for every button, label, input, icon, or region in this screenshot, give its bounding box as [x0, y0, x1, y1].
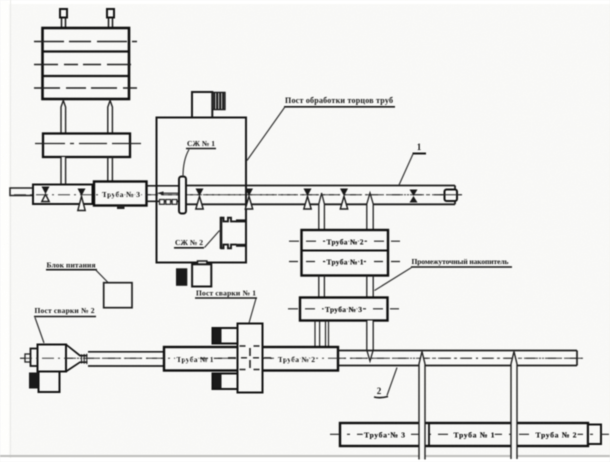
inter-box post segments — [319, 276, 373, 298]
accumulator divider — [302, 250, 389, 252]
roller table axis dash-dot — [35, 143, 141, 145]
lower line centre dash-dot — [20, 357, 583, 359]
welder2 sub box — [39, 372, 60, 393]
bottom storage box — [340, 423, 588, 446]
bottom transfer post left — [419, 352, 425, 460]
welding station 1 tower — [238, 324, 263, 393]
top pipe axis overlay — [14, 194, 443, 196]
lower pipe axis overlay — [20, 357, 583, 359]
receiving valve box — [33, 185, 93, 205]
clamp symbol SZh2 — [221, 217, 246, 249]
scan bottom white strip — [0, 458, 610, 462]
main top pipe lines — [186, 186, 455, 205]
transfer post to accumulator left — [319, 193, 325, 230]
rack pin cap left — [60, 9, 67, 18]
roller table box — [43, 134, 130, 158]
thin pipe from welder2 — [88, 352, 164, 366]
divider 2 — [516, 423, 518, 446]
station lower motor: dark block — [176, 268, 187, 286]
station1 attach bottom — [213, 374, 238, 390]
pipe end cap — [445, 190, 458, 202]
scan top light strip — [0, 0, 610, 4]
end processing station big box — [157, 118, 247, 263]
station lower motor: box — [192, 264, 211, 286]
bottom axis dash-dot — [330, 433, 609, 435]
motor hatch block — [212, 92, 225, 109]
dark support under tube box — [117, 206, 125, 210]
rack pipe axis dashed 2 — [34, 64, 137, 66]
roller valve on pipe 2 — [245, 189, 253, 210]
axis through end cap — [440, 194, 462, 196]
roller valve on pipe 4 — [340, 189, 348, 210]
rack pin stem right — [109, 18, 113, 29]
storage rack top-left: upper pin caps — [60, 9, 114, 28]
right post descending to lower line — [367, 321, 373, 362]
pipe storage rack box — [43, 28, 130, 99]
welder2 body — [38, 345, 67, 372]
bottom transfer post right — [511, 352, 517, 460]
main line centre dash-dot (top pipe) — [14, 194, 462, 196]
rack pipe axis dashed 1 — [34, 41, 137, 43]
transfer post to accumulator right — [367, 193, 373, 230]
small roller squares under pipe — [160, 200, 177, 205]
rack pin cap right — [107, 9, 114, 18]
valve in box — [42, 187, 50, 202]
power supply box — [104, 283, 132, 308]
motor box on top of station — [192, 92, 212, 118]
welder2 funnel — [66, 345, 88, 372]
lower pipe right section — [338, 351, 577, 366]
arrow to tube box — [160, 192, 182, 194]
welder2 dark block — [29, 373, 38, 389]
roller valve on pipe 3 — [304, 189, 312, 210]
accumulator tube3 box — [300, 298, 388, 321]
divider 1 — [428, 423, 430, 446]
rack pipe axis dashed 3 — [34, 87, 137, 89]
scan noise overlay — [0, 0, 1, 1]
lower feed post right — [108, 157, 113, 184]
axis dash row1 — [289, 240, 400, 242]
storage right extension — [588, 425, 601, 445]
lower tube boxes — [164, 347, 338, 371]
thin pipe to flange — [147, 186, 180, 202]
top pipe left stub — [10, 188, 33, 196]
flange SZh1 on pipe — [179, 177, 186, 214]
tube No3 box on top line — [94, 182, 147, 206]
valve at box exit — [78, 189, 86, 211]
rack shelf line 2 — [44, 75, 129, 77]
dark bowtie valve near pipe end — [410, 190, 418, 203]
rack pin stem left — [62, 18, 66, 29]
roller valve on pipe 1 — [196, 189, 204, 210]
lower feed post left (pointed) — [61, 157, 66, 197]
welder2 left stub — [25, 354, 31, 362]
scan bottom edge line — [0, 455, 610, 457]
axis dash row2 — [289, 261, 400, 263]
station1 attach top — [213, 328, 238, 344]
welder2 cap — [31, 349, 38, 367]
station lower motor: cap — [198, 261, 207, 266]
welder2 neck hatch — [82, 354, 87, 364]
scan left light strip — [0, 0, 9, 462]
weld dashes — [240, 345, 260, 347]
accumulator double box — [302, 230, 389, 276]
rack shelf line 1 — [44, 50, 129, 52]
rack lower needle post right — [108, 101, 113, 134]
scan left faint edge line — [10, 0, 11, 462]
rack lower needle post left — [61, 101, 66, 134]
posts below tube3 box — [315, 321, 329, 348]
lower axis dashes near welder — [200, 357, 272, 359]
axis dash tube3 — [288, 308, 399, 310]
